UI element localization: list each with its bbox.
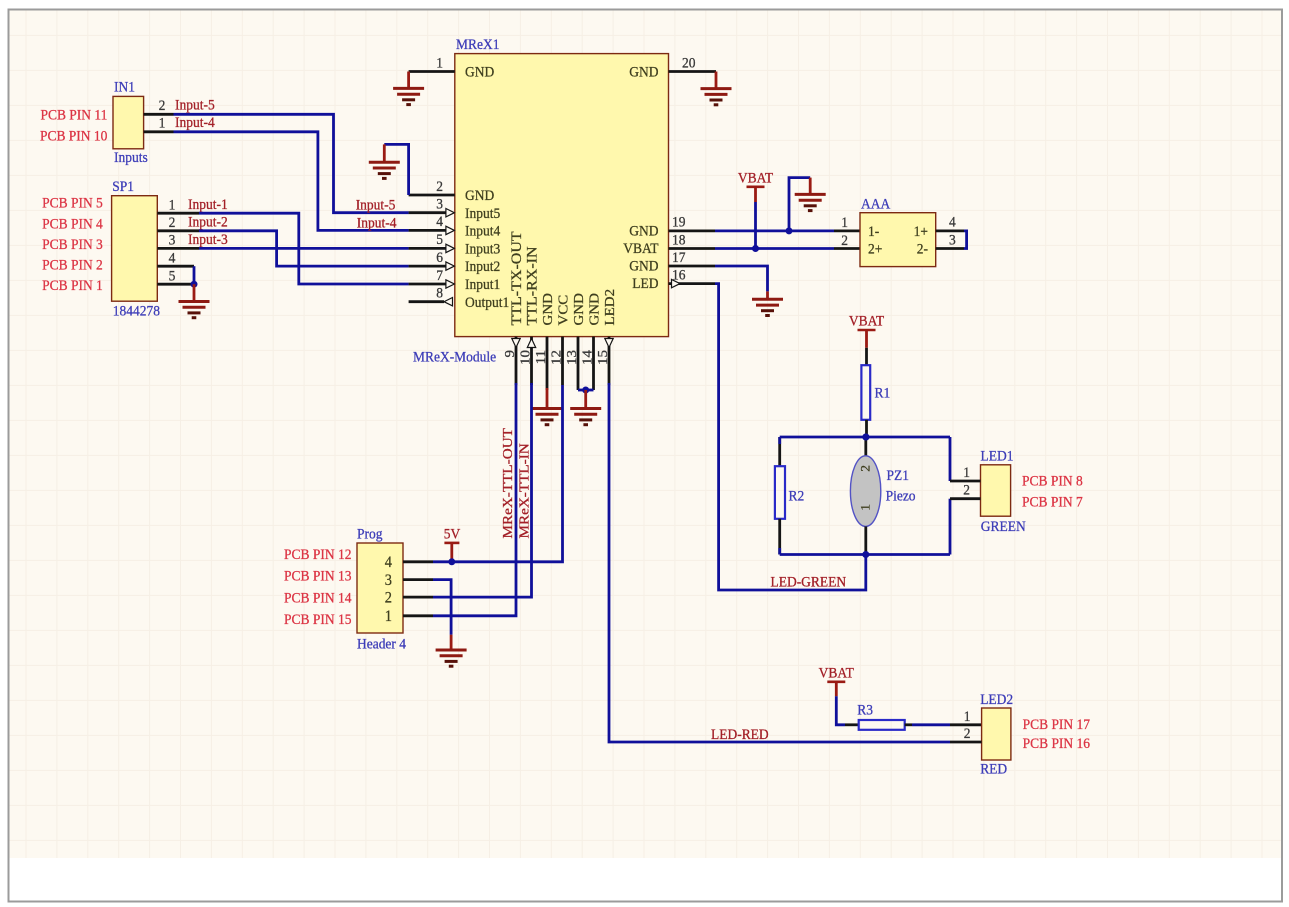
svg-text:5: 5 bbox=[436, 232, 443, 249]
comment GREEN bbox=[981, 518, 1026, 535]
svg-text:PCB PIN 13: PCB PIN 13 bbox=[284, 568, 351, 585]
PZ1 pin 1 number bbox=[859, 504, 872, 511]
piezo PZ1 body bbox=[850, 456, 880, 527]
junction SP1 pin5 bbox=[191, 281, 198, 288]
ground at MReX1 pin 2 bbox=[369, 162, 400, 178]
LED2 pin 2 bbox=[950, 741, 982, 744]
svg-text:MReX-TTL-OUT: MReX-TTL-OUT bbox=[501, 428, 516, 539]
wire MReX1 pin17 to ground bbox=[715, 266, 768, 291]
connector Prog body bbox=[357, 543, 403, 633]
label PCB PIN 2 bbox=[42, 257, 103, 274]
svg-text:13: 13 bbox=[565, 350, 580, 365]
svg-text:PCB PIN 17: PCB PIN 17 bbox=[1023, 716, 1090, 733]
svg-text:Prog: Prog bbox=[357, 526, 382, 543]
wire pin13-pin14 join bbox=[578, 389, 594, 392]
label R3 bbox=[857, 702, 873, 719]
junction R1 bottom bbox=[863, 434, 870, 441]
svg-text:Input2: Input2 bbox=[465, 259, 500, 276]
svg-text:MReX-TTL-IN: MReX-TTL-IN bbox=[517, 443, 532, 539]
comment 1844278 bbox=[113, 303, 160, 320]
svg-text:20: 20 bbox=[682, 55, 695, 72]
label PCB PIN 10 bbox=[40, 128, 107, 145]
svg-text:Input-4: Input-4 bbox=[357, 215, 397, 232]
svg-text:1-: 1- bbox=[868, 223, 879, 240]
junction VBAT on pin18 net bbox=[752, 245, 759, 252]
designator Prog bbox=[357, 526, 382, 543]
svg-text:5V: 5V bbox=[444, 526, 461, 543]
svg-text:VBAT: VBAT bbox=[849, 313, 884, 330]
svg-text:2: 2 bbox=[964, 725, 971, 742]
AAA pin 1 bbox=[841, 215, 848, 232]
svg-text:2: 2 bbox=[159, 97, 166, 114]
wire MReX1 pin18 to AAA pin2 bbox=[715, 247, 834, 250]
svg-text:VBAT: VBAT bbox=[623, 240, 658, 257]
AAA pin 3 bbox=[936, 247, 964, 250]
Prog pin 1 bbox=[385, 607, 433, 625]
SP1 pin 1 bbox=[157, 212, 199, 215]
ground at Prog pin 3 bbox=[436, 650, 467, 666]
svg-text:GREEN: GREEN bbox=[981, 518, 1026, 535]
svg-text:Input-1: Input-1 bbox=[188, 196, 228, 213]
designator LED2 bbox=[980, 691, 1013, 708]
wire to ground at SP1 bbox=[193, 284, 196, 301]
comment Inputs bbox=[114, 149, 148, 166]
svg-text:LED-GREEN: LED-GREEN bbox=[770, 574, 846, 591]
svg-text:16: 16 bbox=[672, 267, 685, 284]
label PCB PIN 11 bbox=[40, 107, 107, 124]
MReX1 pin 15 LED2 bbox=[596, 289, 618, 385]
svg-text:1: 1 bbox=[964, 708, 971, 725]
wire pin20 to ground bbox=[715, 72, 718, 89]
ground at MReX1 pin 11 bbox=[532, 409, 563, 425]
svg-text:2: 2 bbox=[859, 465, 872, 472]
designator MReX1 bbox=[456, 36, 499, 53]
svg-text:PCB PIN 14: PCB PIN 14 bbox=[284, 590, 351, 607]
svg-text:LED1: LED1 bbox=[980, 448, 1013, 465]
MReX1 pin 9 TTL-TX-OUT bbox=[503, 231, 525, 385]
svg-text:AAA: AAA bbox=[861, 196, 891, 213]
wire right rail to LED1 pin2 bbox=[949, 499, 952, 555]
label PCB PIN 5 bbox=[42, 195, 103, 212]
svg-text:2: 2 bbox=[169, 214, 176, 231]
svg-text:3: 3 bbox=[949, 232, 956, 249]
svg-text:PCB PIN 10: PCB PIN 10 bbox=[40, 128, 107, 145]
MReX1 pin 1 GND bbox=[409, 70, 455, 73]
label PCB PIN 1 bbox=[42, 278, 103, 295]
designator AAA bbox=[861, 196, 891, 213]
svg-text:1: 1 bbox=[169, 197, 176, 214]
designator SP1 bbox=[112, 178, 134, 195]
svg-text:PCB PIN 15: PCB PIN 15 bbox=[284, 611, 351, 628]
net label LED-RED bbox=[711, 726, 769, 743]
svg-text:5: 5 bbox=[169, 268, 176, 285]
svg-text:1+: 1+ bbox=[914, 223, 928, 240]
MReX1 pin 20 GND bbox=[669, 70, 717, 73]
ground on pin17 net bbox=[752, 299, 783, 315]
net label Input-2 bbox=[188, 214, 228, 231]
LED1 pin 2 bbox=[950, 497, 981, 500]
svg-text:GND: GND bbox=[629, 258, 658, 275]
svg-text:PCB PIN 16: PCB PIN 16 bbox=[1023, 735, 1090, 752]
label PZ1 bbox=[887, 467, 909, 484]
wire TTL-TX-OUT pin9 to Prog pin1 bbox=[433, 383, 516, 616]
LED2 pin 1 bbox=[964, 708, 971, 725]
label Piezo bbox=[886, 488, 916, 505]
net label Input-5 at MReX1 bbox=[356, 197, 396, 214]
wire Prog pin3 to ground bbox=[433, 580, 451, 635]
svg-text:3: 3 bbox=[436, 196, 443, 213]
svg-text:VCC: VCC bbox=[556, 295, 571, 326]
connector LED2 body bbox=[982, 708, 1011, 760]
svg-text:GND: GND bbox=[572, 293, 587, 325]
svg-text:Output1: Output1 bbox=[465, 294, 509, 311]
wire VCC pin12 to 5V junction bbox=[433, 385, 563, 562]
junction on pin19 net bbox=[786, 227, 793, 234]
MReX1 pin 10 TTL-RX-IN bbox=[518, 246, 540, 385]
MReX1 pin 16 LED bbox=[632, 267, 715, 293]
svg-text:11: 11 bbox=[534, 350, 549, 364]
svg-text:1: 1 bbox=[841, 215, 848, 232]
svg-text:Input-5: Input-5 bbox=[175, 97, 215, 114]
SP1 pin 3 bbox=[157, 247, 199, 250]
svg-text:VBAT: VBAT bbox=[738, 170, 773, 187]
svg-text:1: 1 bbox=[385, 607, 392, 625]
connector IN1 body bbox=[113, 96, 144, 148]
label PCB PIN 7 bbox=[1022, 494, 1083, 511]
svg-text:19: 19 bbox=[672, 214, 685, 231]
svg-text:Input3: Input3 bbox=[465, 241, 500, 258]
svg-text:12: 12 bbox=[549, 350, 564, 365]
svg-text:RED: RED bbox=[980, 761, 1007, 778]
power VBAT above R3 bbox=[819, 665, 854, 682]
Prog pin 2 bbox=[385, 589, 433, 607]
MReX1 pin 7 Input1 bbox=[409, 267, 501, 293]
svg-text:Input-5: Input-5 bbox=[356, 197, 396, 214]
AAA pin 4 bbox=[936, 229, 964, 232]
power VBAT near AAA bbox=[738, 170, 773, 187]
wire pin19 net to ground bbox=[789, 178, 810, 231]
MReX1 pin 18 VBAT bbox=[623, 232, 715, 258]
IN1 pin 2 bbox=[144, 113, 174, 116]
wire 5V stem bbox=[450, 543, 453, 562]
ground on pin19 net bbox=[795, 194, 826, 210]
PZ1 pin 2 number bbox=[859, 465, 872, 472]
MReX1 pin 12 VCC bbox=[549, 295, 571, 385]
svg-text:1: 1 bbox=[963, 464, 970, 481]
svg-text:PCB PIN 7: PCB PIN 7 bbox=[1022, 494, 1083, 511]
svg-text:2: 2 bbox=[841, 232, 848, 249]
svg-text:TTL-TX-OUT: TTL-TX-OUT bbox=[509, 231, 525, 326]
wire to ground pins 13-14 bbox=[584, 390, 587, 409]
Prog pin 3 bbox=[385, 571, 433, 589]
connector SP1 body bbox=[112, 196, 158, 302]
comment Header 4 bbox=[357, 636, 406, 653]
svg-text:TTL-RX-IN: TTL-RX-IN bbox=[524, 246, 540, 325]
svg-text:Input-3: Input-3 bbox=[188, 232, 228, 249]
svg-text:7: 7 bbox=[436, 267, 443, 284]
svg-text:4: 4 bbox=[169, 250, 176, 267]
svg-text:3: 3 bbox=[385, 571, 393, 589]
ground at MReX1 pin 1 bbox=[393, 88, 424, 104]
MReX1 pin 14 GND bbox=[580, 293, 602, 390]
svg-text:GND: GND bbox=[587, 293, 602, 325]
svg-text:GND: GND bbox=[629, 223, 658, 240]
svg-text:PCB PIN 1: PCB PIN 1 bbox=[42, 278, 103, 295]
MReX1 pin 17 GND bbox=[629, 249, 715, 275]
net label Input-1 bbox=[188, 196, 228, 213]
wire VBAT to R3 bbox=[835, 682, 838, 697]
wire PZ1 top stub bbox=[864, 437, 867, 456]
svg-text:PCB PIN 4: PCB PIN 4 bbox=[42, 216, 103, 233]
svg-text:1844278: 1844278 bbox=[113, 303, 160, 320]
junction bottom rail bbox=[862, 551, 869, 558]
svg-text:PZ1: PZ1 bbox=[887, 467, 909, 484]
svg-text:2-: 2- bbox=[917, 241, 928, 258]
wire SP1 pin4 to pin5 bbox=[193, 266, 196, 284]
IC MReX1 body bbox=[455, 54, 669, 337]
wire R2 bottom stub bbox=[778, 519, 781, 555]
MReX1 pin 8 Output1 bbox=[409, 285, 510, 311]
label PCB PIN 15 bbox=[284, 611, 351, 628]
svg-text:PCB PIN 8: PCB PIN 8 bbox=[1022, 473, 1083, 490]
svg-text:PCB PIN 2: PCB PIN 2 bbox=[42, 257, 103, 274]
wire Input-4 from IN1 bbox=[174, 132, 409, 231]
SP1 pin 2 bbox=[157, 229, 199, 232]
wire PZ1 bottom stub bbox=[864, 526, 867, 554]
svg-text:2+: 2+ bbox=[868, 241, 882, 258]
net label Input-5 bbox=[175, 97, 215, 114]
wire R3 to LED2 pin1 bbox=[905, 723, 912, 726]
MReX1 pin 2 GND bbox=[409, 194, 455, 197]
wire VBAT to R1 bbox=[865, 330, 868, 348]
MReX1 pin 11 GND bbox=[534, 293, 556, 390]
net label Input-4 at MReX1 bbox=[357, 215, 397, 232]
label PCB PIN 4 bbox=[42, 216, 103, 233]
svg-text:18: 18 bbox=[672, 232, 685, 249]
label R2 bbox=[788, 488, 804, 505]
svg-text:GND: GND bbox=[541, 293, 556, 325]
resistor R3 bbox=[859, 720, 905, 730]
wire bottom rail bbox=[780, 553, 950, 556]
label PCB PIN 14 bbox=[284, 590, 351, 607]
svg-text:R1: R1 bbox=[875, 385, 891, 402]
svg-text:PCB PIN 3: PCB PIN 3 bbox=[42, 236, 103, 253]
wire R1 to node bbox=[865, 420, 868, 437]
svg-text:PCB PIN 12: PCB PIN 12 bbox=[284, 547, 351, 564]
designator IN1 bbox=[114, 79, 135, 96]
svg-text:2: 2 bbox=[963, 482, 970, 499]
svg-text:4: 4 bbox=[436, 214, 443, 231]
wire MReX1 pin16 LED down-left bbox=[715, 284, 866, 590]
MReX1 pin 6 Input2 bbox=[409, 249, 501, 275]
svg-text:IN1: IN1 bbox=[114, 79, 135, 96]
svg-text:6: 6 bbox=[436, 249, 443, 266]
MReX1 pin 3 Input5 bbox=[409, 196, 501, 222]
svg-text:Input-4: Input-4 bbox=[175, 114, 215, 131]
label PCB PIN 8 bbox=[1022, 473, 1083, 490]
svg-text:9: 9 bbox=[503, 350, 518, 357]
SP1 pin 5 bbox=[157, 283, 194, 286]
battery AAA body bbox=[860, 213, 936, 267]
wire R2 top stub bbox=[778, 437, 781, 466]
wire LED2 pin15 to LED-RED bbox=[609, 383, 950, 742]
connector LED1 body bbox=[981, 465, 1011, 516]
svg-text:17: 17 bbox=[672, 249, 685, 266]
svg-text:GND: GND bbox=[465, 187, 494, 204]
SP1 pin 4 bbox=[157, 265, 194, 268]
wire top rail bbox=[780, 436, 950, 439]
svg-text:R3: R3 bbox=[857, 702, 873, 719]
svg-text:Input5: Input5 bbox=[465, 205, 500, 222]
label PCB PIN 12 bbox=[284, 547, 351, 564]
svg-text:8: 8 bbox=[436, 285, 443, 302]
wire MReX1 pin19 to AAA pin1 bbox=[715, 229, 834, 232]
MReX1 pin 4 Input4 bbox=[409, 214, 501, 240]
svg-text:1: 1 bbox=[436, 55, 443, 72]
svg-text:LED-RED: LED-RED bbox=[711, 726, 769, 743]
resistor R1 bbox=[861, 365, 870, 420]
MReX1 pin 13 GND bbox=[565, 293, 587, 390]
wire VBAT stem bbox=[754, 187, 757, 202]
svg-text:2: 2 bbox=[436, 178, 443, 195]
wire Input-2 bbox=[199, 231, 409, 266]
wire pin1 to ground bbox=[407, 72, 410, 89]
label PCB PIN 13 bbox=[284, 568, 351, 585]
ground at SP1 pin 5 bbox=[179, 302, 210, 318]
svg-text:Input1: Input1 bbox=[465, 276, 500, 293]
wire Input-5 from IN1 bbox=[174, 114, 409, 212]
wire AAA pin4 to pin3 bbox=[964, 231, 967, 249]
svg-text:14: 14 bbox=[580, 350, 595, 365]
svg-text:MReX1: MReX1 bbox=[456, 36, 499, 53]
ground at MReX1 pin 20 bbox=[701, 89, 732, 105]
label PCB PIN 16 bbox=[1023, 735, 1090, 752]
svg-text:4: 4 bbox=[949, 214, 956, 231]
svg-text:1: 1 bbox=[159, 115, 166, 132]
svg-text:SP1: SP1 bbox=[112, 178, 134, 195]
svg-text:PCB PIN 5: PCB PIN 5 bbox=[42, 195, 103, 212]
comment MReX-Module bbox=[413, 349, 496, 366]
svg-text:R2: R2 bbox=[788, 488, 804, 505]
wire Input-3 bbox=[199, 247, 409, 250]
svg-text:10: 10 bbox=[518, 350, 533, 365]
svg-text:4: 4 bbox=[385, 553, 393, 571]
AAA pin 2 bbox=[841, 232, 848, 249]
resistor R2 bbox=[775, 466, 785, 519]
svg-text:Inputs: Inputs bbox=[114, 149, 148, 166]
net label Input-4 bbox=[175, 114, 215, 131]
net label MReX-TTL-OUT bbox=[501, 428, 516, 539]
svg-text:Header 4: Header 4 bbox=[357, 636, 406, 653]
svg-text:VBAT: VBAT bbox=[819, 665, 854, 682]
LED1 pin 1 bbox=[950, 480, 981, 483]
MReX1 pin 19 GND bbox=[629, 214, 715, 240]
wire right rail to LED1 pin1 bbox=[949, 437, 952, 481]
power VBAT above R1 bbox=[849, 313, 884, 330]
comment RED bbox=[980, 761, 1007, 778]
svg-text:1: 1 bbox=[859, 504, 872, 511]
svg-text:PCB PIN 11: PCB PIN 11 bbox=[40, 107, 107, 124]
svg-text:GND: GND bbox=[629, 64, 658, 81]
Prog pin 4 bbox=[385, 553, 433, 571]
svg-text:GND: GND bbox=[465, 64, 494, 81]
svg-text:15: 15 bbox=[596, 350, 611, 365]
wire pin2 to ground bbox=[384, 144, 408, 195]
svg-text:LED2: LED2 bbox=[980, 691, 1013, 708]
net label LED-GREEN bbox=[770, 574, 846, 591]
label PCB PIN 3 bbox=[42, 236, 103, 253]
svg-text:2: 2 bbox=[385, 589, 392, 607]
junction pins 13-14 bbox=[582, 387, 589, 394]
label PCB PIN 17 bbox=[1023, 716, 1090, 733]
junction 5V on Prog pin 4 net bbox=[448, 558, 455, 565]
designator LED1 bbox=[980, 448, 1013, 465]
net label Input-3 bbox=[188, 232, 228, 249]
MReX1 pin 5 Input3 bbox=[409, 232, 501, 258]
svg-text:3: 3 bbox=[169, 232, 176, 249]
svg-text:LED: LED bbox=[632, 276, 658, 293]
svg-text:Input-2: Input-2 bbox=[188, 214, 228, 231]
svg-text:MReX-Module: MReX-Module bbox=[413, 349, 496, 366]
wire TTL-RX-IN pin10 to Prog pin2 bbox=[433, 383, 532, 597]
net label MReX-TTL-IN bbox=[517, 443, 532, 539]
power 5V bbox=[444, 526, 461, 543]
label R1 bbox=[875, 385, 891, 402]
IN1 pin 1 bbox=[144, 130, 174, 133]
svg-text:LED2: LED2 bbox=[603, 289, 618, 326]
ground at MReX1 pins 13-14 bbox=[570, 409, 601, 425]
wire pin11 to ground bbox=[546, 388, 549, 409]
svg-text:Piezo: Piezo bbox=[886, 488, 916, 505]
wire Input-1 bbox=[199, 213, 409, 284]
junction top rail bbox=[862, 434, 869, 441]
svg-text:Input4: Input4 bbox=[465, 223, 500, 240]
